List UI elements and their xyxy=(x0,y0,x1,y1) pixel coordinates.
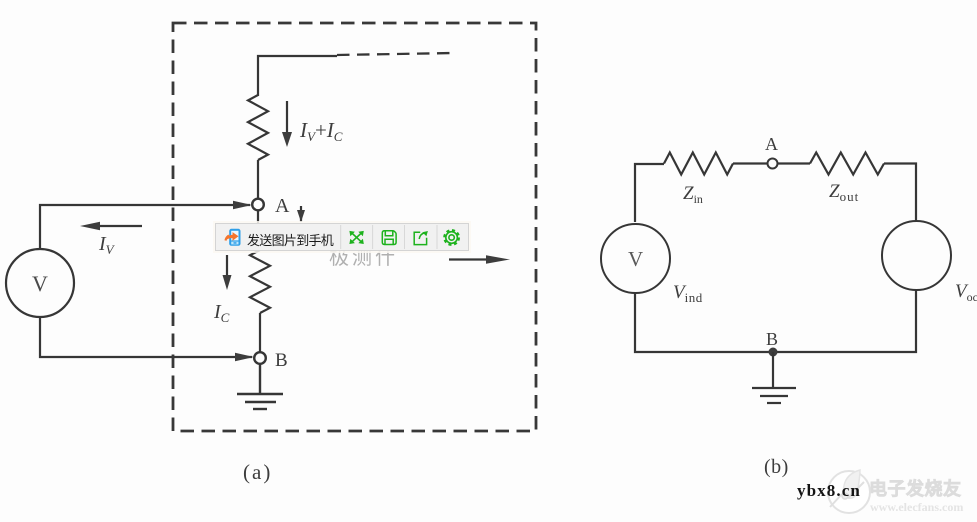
node A (open circle, circuit b) xyxy=(768,159,778,169)
svg-text:(a): (a) xyxy=(243,460,272,484)
wire node A to Zout xyxy=(778,162,810,164)
resistor R1 (upper, between top wire and node A) xyxy=(248,95,268,160)
svg-text:IV+IC: IV+IC xyxy=(299,118,343,144)
resistor Zout xyxy=(810,153,884,175)
svg-text:V: V xyxy=(32,271,48,296)
small arrow mark above toolbar (hidden label remnant) xyxy=(297,206,305,222)
arrow for current IV+IC (down) xyxy=(282,101,292,147)
wire node A down toward R2 (partly hidden by toolbar) xyxy=(257,210,259,224)
dashed enclosure box (a) xyxy=(173,23,536,431)
voltmeter V (circuit a) xyxy=(6,249,74,317)
wire left source bottom to node B to right source (bottom rail) xyxy=(635,290,916,352)
svg-text:Zout: Zout xyxy=(829,181,859,204)
arrow for current IC (down) xyxy=(223,255,232,290)
svg-text:Vind: Vind xyxy=(673,282,703,305)
toolbar separator 3 xyxy=(404,225,406,249)
toolbar icon gear (settings) xyxy=(445,230,459,244)
arrow IV (pointing left) xyxy=(80,222,142,230)
source Voc circle (right) xyxy=(882,221,951,290)
svg-text:(b): (b) xyxy=(764,456,789,478)
wire R2 bottom to node B xyxy=(259,313,261,352)
ground symbol (circuit b) xyxy=(752,352,796,403)
wire top-left corner from resistor R1 up and right (solid part) xyxy=(258,56,337,96)
svg-text:V: V xyxy=(628,247,643,271)
node A (open circle) xyxy=(252,199,264,211)
svg-text:A: A xyxy=(765,134,778,154)
toolbar separator 2 xyxy=(372,225,374,249)
svg-text:Zin: Zin xyxy=(683,183,703,206)
wire Zout to right source top xyxy=(884,164,916,222)
svg-text:www.elecfans.com: www.elecfans.com xyxy=(870,500,963,514)
node B (open circle, circuit a) xyxy=(254,352,266,364)
wire voltmeter top to node A with right arrowhead xyxy=(40,201,252,249)
svg-text:ybx8.cn: ybx8.cn xyxy=(797,481,861,500)
svg-text:IC: IC xyxy=(213,301,230,325)
toolbar text xyxy=(247,230,333,249)
toolbar icon maximize (green X arrows) xyxy=(349,231,363,244)
wire R1 bottom to node A xyxy=(257,160,259,199)
toolbar icon save (floppy) xyxy=(382,231,396,245)
toolbar separator 1 xyxy=(340,225,342,249)
toolbar overlay xyxy=(215,223,469,251)
source Vind circle xyxy=(601,224,670,293)
resistor Zin xyxy=(664,153,733,175)
svg-text:B: B xyxy=(275,350,288,371)
svg-text:Voc: Voc xyxy=(955,281,977,304)
resistor R2 (lower, between toolbar and node B) xyxy=(250,250,270,313)
wire left source top to Zin xyxy=(635,164,664,222)
svg-text:电子发烧友: 电子发烧友 xyxy=(869,478,962,499)
wire Zin to node A xyxy=(733,162,767,164)
toolbar separator 4 xyxy=(436,225,438,249)
watermark logo circle xyxy=(828,470,870,513)
svg-text:A: A xyxy=(275,195,290,217)
arrow pointing right (mid canvas, right of toolbar) xyxy=(449,255,510,264)
node B (solid dot, circuit b) xyxy=(769,348,778,357)
wire voltmeter bottom to node B with right arrowhead xyxy=(40,317,254,361)
svg-text:B: B xyxy=(766,329,778,349)
toolbar phone icon with orange send arrow xyxy=(226,229,241,246)
ground symbol (circuit a) xyxy=(237,364,283,410)
svg-text:IV: IV xyxy=(98,233,116,257)
toolbar icon share (box with out-arrow) xyxy=(414,231,428,245)
wire dashed continuation of top wire xyxy=(337,53,454,55)
